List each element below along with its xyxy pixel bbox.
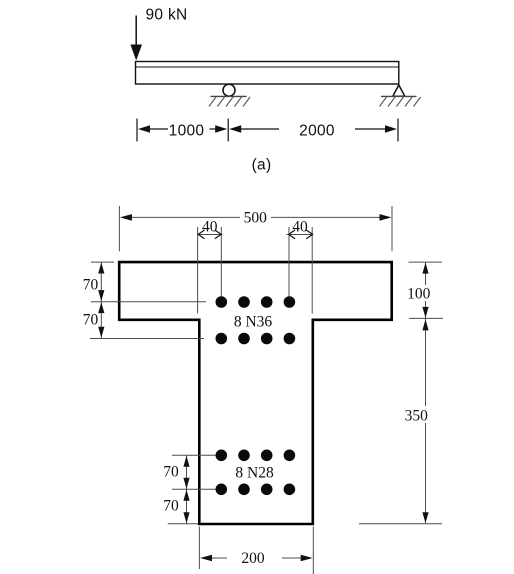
svg-text:350: 350 xyxy=(405,408,429,425)
svg-text:8 N36: 8 N36 xyxy=(234,313,273,330)
svg-text:1000: 1000 xyxy=(169,122,205,139)
svg-text:40: 40 xyxy=(292,218,308,235)
svg-text:70: 70 xyxy=(163,497,179,514)
svg-text:500: 500 xyxy=(244,209,268,226)
svg-text:70: 70 xyxy=(163,463,179,480)
svg-text:200: 200 xyxy=(241,550,265,567)
svg-text:100: 100 xyxy=(407,285,431,302)
svg-text:2000: 2000 xyxy=(299,122,335,139)
svg-text:8 N28: 8 N28 xyxy=(235,464,274,481)
svg-text:90 kN: 90 kN xyxy=(146,7,188,24)
svg-text:(a): (a) xyxy=(252,157,272,174)
svg-text:70: 70 xyxy=(83,312,99,329)
svg-text:70: 70 xyxy=(83,277,99,294)
svg-text:40: 40 xyxy=(202,218,218,235)
